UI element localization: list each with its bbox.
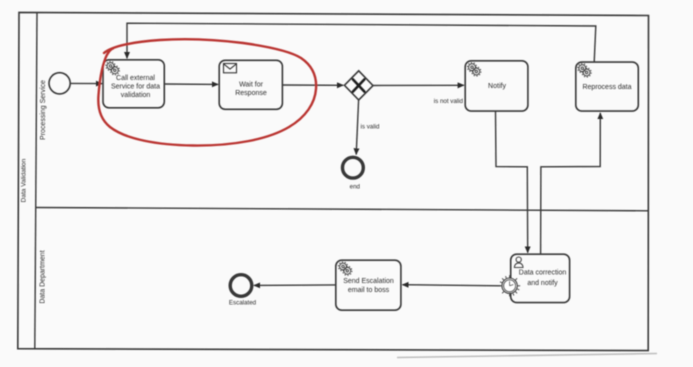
task Send Escalation email to boss (336, 260, 401, 310)
svg-text:Reprocess data: Reprocess data (582, 84, 631, 91)
wire: task1 to task2 (165, 83, 219, 85)
svg-text:Response: Response (235, 90, 267, 97)
wire: timer boundary to Send Escalation (403, 285, 501, 286)
svg-text:is not valid: is not valid (434, 98, 464, 105)
icon: service gears on Reprocess data (578, 64, 592, 77)
svg-text:and notify: and notify (527, 280, 558, 287)
label task2 (235, 82, 267, 98)
icon: service gears on Notify (467, 63, 481, 76)
wire: loop Reprocess data back to task1 (127, 23, 596, 62)
wire: start to task Call external (70, 82, 102, 84)
svg-text:validation: validation (121, 92, 151, 99)
task Data correction and notify (511, 254, 570, 302)
svg-text:email to boss: email to boss (348, 287, 390, 294)
wire: Data correction up to Reprocess data (541, 113, 601, 254)
svg-text:Call external: Call external (116, 75, 155, 82)
wire: gateway to Notify (is not valid) (373, 84, 464, 86)
icon: service gears on Send Escalation (338, 262, 352, 276)
svg-text:Data Validation: Data Validation (21, 158, 28, 202)
label task1 (111, 75, 160, 99)
task Wait for Response (219, 60, 282, 109)
svg-text:Processing Service: Processing Service (40, 80, 47, 140)
svg-text:end: end (350, 184, 361, 191)
photo edge shadow bottom-right (397, 354, 657, 358)
gateway X mark (353, 79, 365, 91)
icon: user on Data correction (514, 257, 523, 268)
task Notify (465, 61, 528, 111)
wire: Send Escalation to Escalated end (254, 284, 336, 287)
gateway exclusive X (344, 71, 373, 100)
svg-text:Data Department: Data Department (40, 250, 47, 303)
svg-text:Data correction: Data correction (519, 270, 567, 277)
icon: envelope on Wait for Response (224, 64, 237, 73)
icon: service gears on task1 (106, 61, 120, 75)
task Reprocess data (576, 62, 639, 111)
red hand-drawn ellipse (98, 39, 316, 145)
wire: task2 to gateway (283, 84, 344, 86)
label Send Escalation (343, 278, 394, 294)
svg-text:Service for data: Service for data (111, 84, 160, 91)
label Data correction (519, 270, 567, 288)
start event (49, 73, 70, 94)
end event (343, 157, 364, 178)
end event Escalated (230, 275, 252, 297)
wire: gateway down to end (is valid) (356, 100, 358, 155)
svg-text:Wait for: Wait for (239, 82, 264, 89)
svg-text:is valid: is valid (361, 124, 380, 131)
svg-text:Notify: Notify (488, 83, 506, 90)
svg-text:Send Escalation: Send Escalation (343, 278, 394, 285)
boundary timer event on Data correction (499, 275, 520, 296)
task Call external Service for data validation (103, 60, 164, 108)
lane divider (36, 208, 648, 211)
wire: Notify down to Data correction (496, 111, 528, 253)
svg-text:Escalated: Escalated (229, 300, 257, 307)
